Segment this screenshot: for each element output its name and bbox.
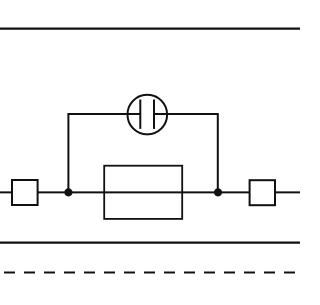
node A (left junction dot) xyxy=(64,188,72,196)
bottom border line xyxy=(0,242,300,244)
wire (right riser) xyxy=(154,114,218,192)
gas discharge tube U1 (circle) xyxy=(128,95,168,135)
U1 right electrode plate xyxy=(153,100,155,129)
fuse F1 (rectangle) xyxy=(104,166,182,219)
terminal clamp right (square) xyxy=(250,180,275,205)
dashed rail line xyxy=(4,272,300,274)
U1 left lead xyxy=(127,113,141,115)
top border line xyxy=(0,28,300,30)
U1 right lead xyxy=(154,113,168,115)
U1 left electrode plate xyxy=(139,100,141,129)
wire (left riser) xyxy=(68,114,140,192)
terminal clamp left (square) xyxy=(12,180,38,205)
node B (right junction dot) xyxy=(214,188,222,196)
wire (main horizontal conductor) xyxy=(0,191,300,193)
